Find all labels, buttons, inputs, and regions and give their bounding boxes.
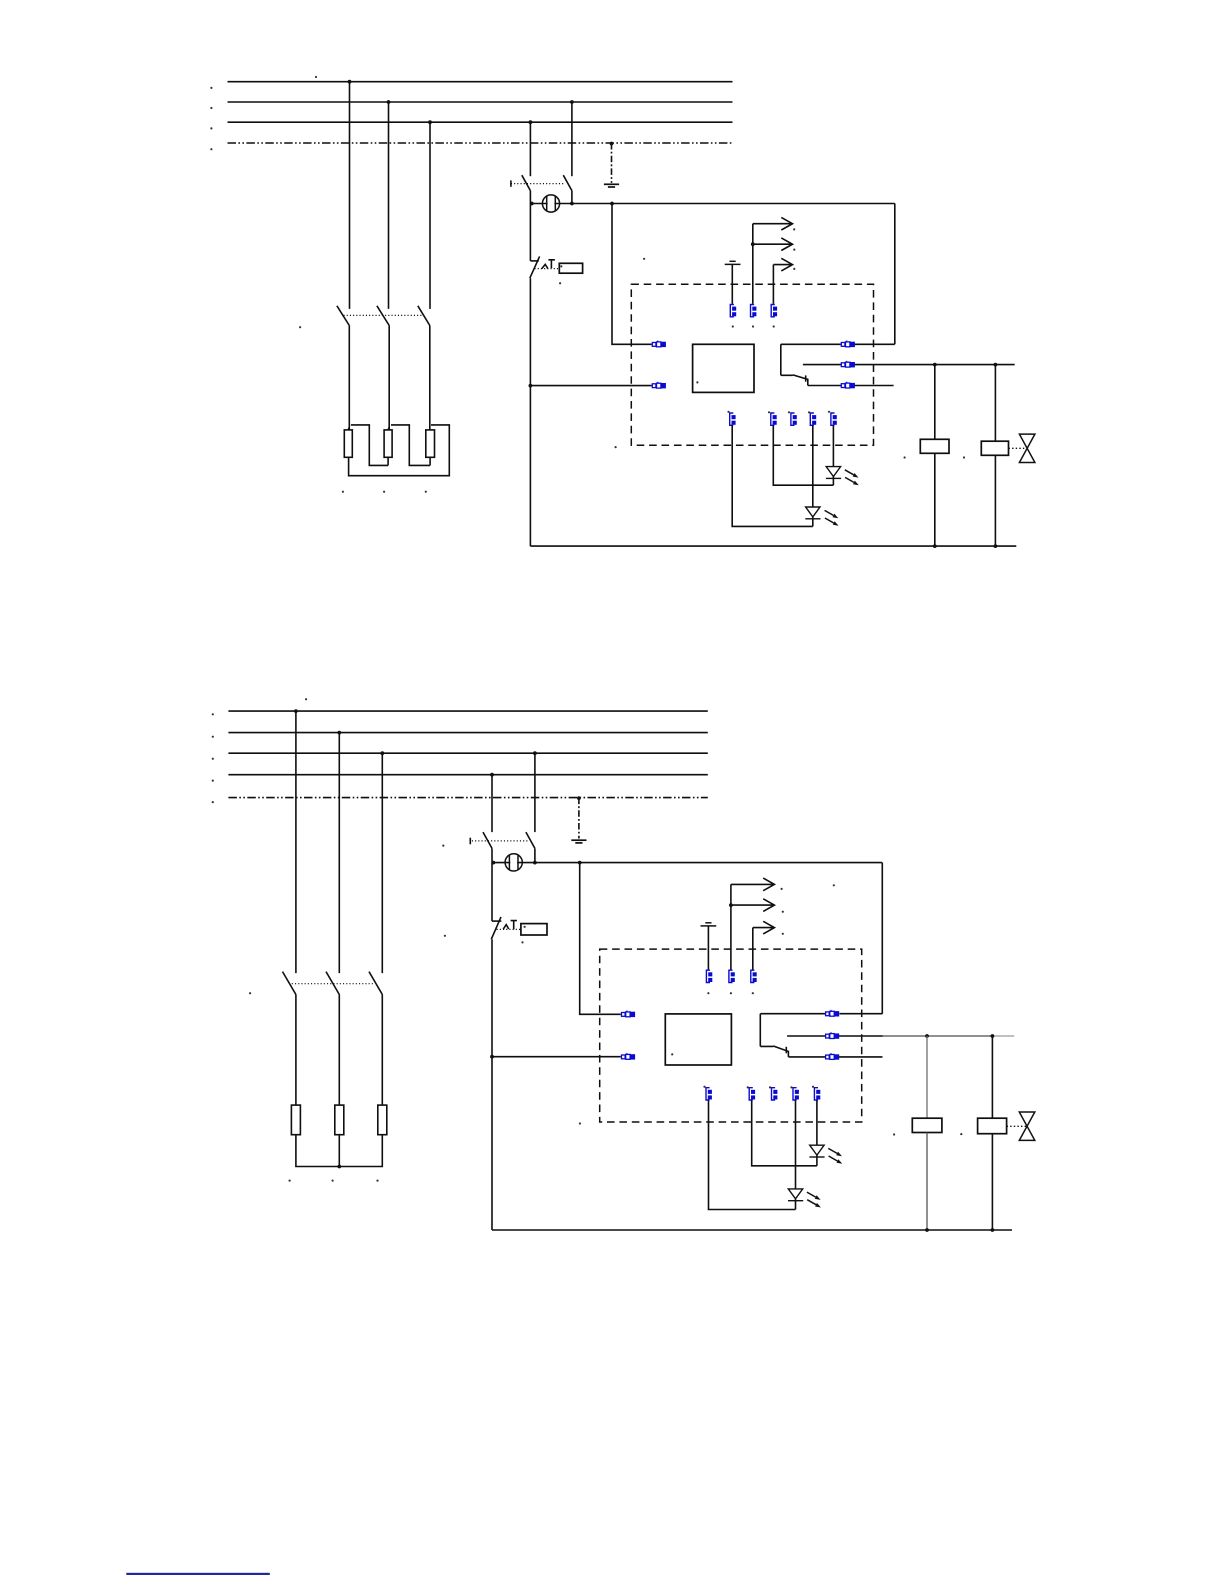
LED D1 emission arrows <box>845 470 859 485</box>
dot at B3b <box>769 1086 771 1088</box>
resistor R1b <box>291 1105 300 1135</box>
bus L4b <box>228 774 707 776</box>
ground PE <box>604 184 619 187</box>
wire right edge of loop b <box>881 863 883 1014</box>
contactor linkage (dotted) <box>344 314 422 316</box>
dot after arrow1 <box>793 228 795 230</box>
wire relay row3 b <box>788 1056 882 1058</box>
dot near dashed corner <box>615 446 617 448</box>
wire relay row2 ext b tail (light gray) <box>992 1035 1014 1037</box>
breaker QF2 linkage (dotted) <box>472 840 529 842</box>
junction coil1 rail b <box>925 1228 929 1232</box>
relay contact tick b <box>785 1047 787 1054</box>
dot below P3 <box>773 325 775 327</box>
valve Y1 <box>1019 434 1035 462</box>
controller dashed enclosure <box>631 284 873 445</box>
contactor KM2 pole3 blade <box>369 972 382 995</box>
node dot N label <box>210 148 212 150</box>
wire delta link R1top-R2bottom <box>351 425 388 466</box>
dot in sensor box <box>560 265 562 267</box>
connector B2 (bottom) <box>771 413 777 425</box>
valve Y1b <box>1019 1112 1035 1140</box>
junction L3b tap2 <box>533 751 537 755</box>
breaker linkage (dotted) <box>511 183 565 185</box>
signal arrow 2 <box>753 238 793 251</box>
junction L1 tap <box>348 80 352 84</box>
wire control top rail b <box>492 862 882 864</box>
wire tap phase2 to contactor <box>388 102 390 309</box>
wire relay row2 ext b (gray) <box>883 1035 993 1037</box>
junction Nb tap <box>577 796 581 800</box>
connector K3 (right row3) <box>841 382 855 389</box>
bus L1 <box>228 81 733 83</box>
contactor KM2 pole1 blade <box>283 972 296 995</box>
thermostat link triangle <box>542 264 548 268</box>
junction arrow2 branch <box>751 242 755 246</box>
node dot L2b label <box>212 736 214 738</box>
junction left rail corner <box>530 202 534 206</box>
connector B4b (bottom) <box>793 1088 799 1100</box>
wire left rail lower b <box>491 939 493 1230</box>
wire delta link R3top-R1bottom <box>349 425 450 476</box>
breaker QF2 pole1 blade <box>483 832 492 848</box>
wire relay row1 right b <box>840 1013 883 1015</box>
connector X2b (left row2) <box>622 1053 636 1060</box>
connector B5b (bottom) <box>814 1088 820 1100</box>
wire B4b to LED2b anode <box>795 1100 797 1189</box>
junction L2 tap2 <box>570 100 574 104</box>
signal arrow 1b <box>731 878 775 891</box>
wire contactor pole1 to R1 <box>348 326 349 430</box>
connector B3b (bottom) <box>772 1088 778 1100</box>
wire pole1b to R1b <box>295 995 297 1106</box>
wire to controller input2 b <box>492 1056 621 1058</box>
connector P2 (top) <box>751 305 757 317</box>
wire contactor pole2 to R2 <box>388 326 389 430</box>
wire signal ground stem <box>731 264 733 303</box>
wire pole2b to R2b <box>338 995 340 1106</box>
junction star point <box>337 1165 341 1169</box>
breaker linkage end cap <box>510 180 512 186</box>
thermostat NC contact blade b <box>491 917 501 939</box>
wire relay common drop b <box>759 1014 761 1047</box>
wire relay row2 <box>803 364 1015 366</box>
valve link (dotted) <box>1009 447 1027 449</box>
bus L1b <box>228 710 707 712</box>
LED D2b emission arrows <box>807 1192 821 1207</box>
LED D1b emission arrows <box>828 1148 842 1163</box>
dot left of coil2 b <box>960 1133 962 1135</box>
junction arrow2b branch <box>729 903 733 907</box>
wire to controller input2 <box>530 385 651 387</box>
connector K1b (right row1) <box>826 1010 840 1017</box>
junction left rail b <box>492 861 496 865</box>
thermostat T actuator <box>548 260 555 269</box>
wire bottom rail <box>530 545 1016 547</box>
wire tap phase1 to contactor <box>349 82 351 309</box>
dot after arrow1b <box>781 888 783 890</box>
plug-fuse symbol b <box>505 854 522 871</box>
wire B5 to LED1 anode <box>832 425 834 466</box>
dot after arrow2 <box>793 249 795 251</box>
dot at B1b <box>703 1086 705 1088</box>
node dot L3 label <box>210 127 212 129</box>
wire arrows feed b <box>730 884 732 969</box>
junction coil2 rail <box>994 544 998 548</box>
stray dot b2 <box>833 884 835 886</box>
node dot L1b label <box>212 713 214 715</box>
connector P1 (top) <box>730 305 736 317</box>
wire tap phase3 to contactor <box>429 122 431 309</box>
bus Nb (dash-dot) <box>228 797 707 799</box>
relay coil KA2b <box>978 1118 1007 1134</box>
resistor R1 <box>344 430 352 457</box>
signal arrow 1 <box>753 217 793 230</box>
junction L3 tap <box>428 120 432 124</box>
wire coil1 to rail b <box>926 1133 928 1231</box>
breaker QF2 pole2 blade <box>526 832 535 848</box>
junction L3 tap2 <box>529 120 533 124</box>
wire delta link R2top-R3bottom <box>391 425 430 466</box>
dot after arrow2b <box>782 911 784 913</box>
junction pole2b top wire <box>533 861 537 865</box>
footer rule <box>126 1573 269 1575</box>
connector B1 (bottom) <box>730 413 736 425</box>
connector B2b (bottom) <box>749 1088 755 1100</box>
wire LED2 cathode stub <box>812 517 814 527</box>
dot at B1 <box>727 411 729 413</box>
junction top rail to input1 <box>610 202 614 206</box>
junction left rail row2 b <box>490 1055 494 1059</box>
node dot L2 label <box>210 107 212 109</box>
junction N tap <box>610 142 614 146</box>
wire coil2 drop <box>994 365 996 442</box>
dot at B4 <box>808 411 810 413</box>
wire signal ground stem b <box>707 926 709 970</box>
junction L2 tap <box>387 100 391 104</box>
junction row2 coil2 b <box>991 1034 995 1038</box>
wire left rail upper b <box>491 863 493 922</box>
wire coil1 drop <box>934 365 936 440</box>
dot under R3b <box>376 1180 378 1182</box>
dot left of contact <box>643 258 645 260</box>
wire arrow3 feed <box>772 265 774 304</box>
wire tap breaker pole1b <box>491 775 493 832</box>
junction row2 coil1 b <box>925 1034 929 1038</box>
wire tap phase1b <box>295 711 297 973</box>
connector B4 (bottom) <box>810 413 816 425</box>
wire coil2 to rail b <box>991 1134 993 1230</box>
connector P2b (top) <box>729 970 735 982</box>
connector P1b (top) <box>706 970 712 982</box>
bus L2 <box>228 101 733 103</box>
resistor R2b <box>335 1105 344 1135</box>
wire breaker pole2 out <box>571 191 573 204</box>
contactor KM2 linkage (dotted) <box>292 983 375 985</box>
resistor R3b <box>378 1105 387 1135</box>
wire bottom rail b <box>492 1229 1012 1231</box>
dot left of contactor <box>299 326 301 328</box>
MCU module U1 <box>693 344 754 392</box>
dot below P3b <box>752 992 754 994</box>
dot under R3 <box>425 491 427 493</box>
node dot L1 label <box>210 87 212 89</box>
wire B2 to LED1 cathode <box>773 425 833 485</box>
junction coil1 rail <box>933 544 937 548</box>
wire tap to breaker pole1 <box>529 122 531 176</box>
dot under R1 <box>342 491 344 493</box>
junction row2 coil1 <box>933 363 937 367</box>
wire right edge of loop <box>894 204 896 345</box>
wire to controller input1 <box>612 204 652 345</box>
thermostat T actuator b <box>511 921 517 930</box>
connector K2b (right row2) <box>826 1032 840 1039</box>
stray dot right of box b <box>893 1133 895 1135</box>
junction top rail input1 b <box>578 861 582 865</box>
wire tap phase3b <box>381 753 383 973</box>
LED D2b <box>788 1189 803 1201</box>
relay contact blade b <box>760 1046 788 1057</box>
wire B5b to LED1b anode <box>816 1100 818 1145</box>
dot at B2 <box>768 411 770 413</box>
thermostat NC contact blade <box>530 256 540 278</box>
resistor R3 <box>426 430 435 457</box>
wire relay row1 right <box>854 343 895 345</box>
relay coil KA2 <box>981 441 1008 455</box>
contactor KM1 pole2 blade <box>377 306 389 326</box>
LED D1b <box>809 1145 824 1157</box>
thermostat link triangle b <box>503 925 509 930</box>
contactor KM2 pole2 blade <box>326 972 339 995</box>
dot at B5 <box>828 411 830 413</box>
stray dot <box>315 76 317 78</box>
relay coil KA1 <box>920 439 949 453</box>
wire B2b to LED1b cathode <box>752 1100 817 1165</box>
relay contact tick <box>805 375 807 381</box>
wire arrow3 feed b <box>752 928 754 970</box>
thermostat sensor box b <box>521 924 547 935</box>
wire LED2b cathode stub <box>795 1199 797 1210</box>
signal ground symbol b <box>701 923 717 926</box>
relay coil KA1b <box>912 1118 942 1132</box>
contactor KM1 pole1 blade <box>337 306 349 326</box>
thermostat NC contact foot b <box>492 920 501 922</box>
wire left rail upper <box>529 204 531 261</box>
LED D1 <box>826 467 841 479</box>
dot at B3 <box>788 411 790 413</box>
contactor KM1 pole3 blade <box>418 306 430 326</box>
wire relay row1 left <box>781 343 841 345</box>
dot under R2b <box>332 1180 334 1182</box>
wire LED1b cathode stub <box>816 1155 818 1166</box>
resistor R2 <box>384 430 392 457</box>
LED D2 emission arrows <box>825 510 839 525</box>
dot in MCU b <box>671 1053 673 1055</box>
connector B3 (bottom) <box>791 413 797 425</box>
connector P3b (top) <box>751 970 757 982</box>
MCU module U2 <box>665 1014 731 1065</box>
dot at B4b <box>790 1086 792 1088</box>
bus N (dash-dot) <box>228 142 733 144</box>
bus L3 <box>228 121 733 123</box>
wire tap phase2b <box>338 733 340 974</box>
dot near dashed corner b <box>579 1122 581 1124</box>
stray dot b1 <box>305 698 307 700</box>
wire tap to breaker pole2 <box>571 102 573 176</box>
junction pole2 to top wire <box>570 202 574 206</box>
dot under R2 <box>383 491 385 493</box>
wire tap breaker pole2b <box>534 753 536 832</box>
connector K1 (right row1) <box>841 341 855 348</box>
wire coil1 to rail <box>934 453 936 546</box>
thermostat NC contact foot <box>530 260 538 262</box>
dot left of coil2 <box>963 456 965 458</box>
dot below actuator b <box>521 941 523 943</box>
bus L2b <box>228 732 707 734</box>
wire PE drop (dash-dot) <box>611 143 613 183</box>
breaker QF2 linkage cap <box>469 838 471 845</box>
bus L3b <box>228 752 707 754</box>
dot below P2b <box>730 992 732 994</box>
node dot L3b label <box>212 758 214 760</box>
node dot Nb label <box>212 801 214 803</box>
dot in sensor box b <box>524 926 526 928</box>
connector K2 (right row2) <box>841 361 855 368</box>
controller dashed enclosure b <box>600 949 862 1122</box>
wire PEb drop (dash-dot) <box>578 798 580 839</box>
signal arrow 3b <box>753 921 775 934</box>
junction coil2 rail b <box>991 1228 995 1232</box>
connector K3b (right row3) <box>826 1053 840 1060</box>
wire coil2 to rail <box>994 455 996 546</box>
junction L1b tap <box>294 709 298 713</box>
breaker QF1 pole2 blade <box>563 175 572 190</box>
wire relay row2 b <box>787 1035 883 1037</box>
junction row2 coil2 <box>994 363 998 367</box>
junction L3b tap <box>380 751 384 755</box>
junction L4b tap <box>490 773 494 777</box>
connector P3 (top) <box>771 305 777 317</box>
junction left rail row2 <box>529 384 533 388</box>
wire B4 to LED2 anode <box>812 425 814 507</box>
wire B1 to LED2 cathode <box>732 425 813 526</box>
dot in MCU <box>696 381 698 383</box>
wire left rail lower <box>529 278 531 546</box>
wire coil2 drop b <box>991 1036 993 1118</box>
wire pole3b to R3b <box>381 995 383 1106</box>
dot left of contactor b <box>249 992 251 994</box>
wire coil1 drop b (gray) <box>926 1036 928 1118</box>
ground PEb <box>571 840 586 843</box>
dot left of contact b <box>444 935 446 937</box>
node dot L4b label <box>212 780 214 782</box>
wire star point <box>296 1135 382 1167</box>
relay contact blade <box>781 375 808 386</box>
junction L2b tap <box>337 731 341 735</box>
wire relay row1 left b <box>760 1013 825 1015</box>
valve link b (dotted) <box>1007 1125 1026 1127</box>
dot after arrow3b <box>782 933 784 935</box>
dot under R1b <box>289 1180 291 1182</box>
wire LED1 cathode stub <box>832 477 834 486</box>
thermostat link b (dotted) <box>497 928 521 930</box>
thermostat link (dotted) <box>535 268 559 270</box>
wire breaker pole1b out <box>491 848 493 862</box>
dot at B2b <box>747 1086 749 1088</box>
wire control top rail <box>530 203 894 205</box>
wire B1b to LED2b cathode <box>709 1100 796 1209</box>
thermostat sensor box <box>559 263 582 273</box>
dot after arrow3 <box>793 268 795 270</box>
signal arrow 2b <box>731 899 775 912</box>
signal arrow 3 <box>773 258 792 271</box>
dot at B5b <box>812 1086 814 1088</box>
connector X2 (left row2) <box>652 382 666 389</box>
dot below P1b <box>707 992 709 994</box>
connector X1 (left row1) <box>652 341 666 348</box>
signal ground symbol <box>725 261 741 264</box>
breaker QF1 pole1 blade <box>522 175 531 190</box>
wire to controller input1 b <box>580 863 621 1015</box>
plug-fuse symbol <box>542 195 559 212</box>
dot below P1 <box>732 325 734 327</box>
wire breaker pole1 out <box>529 191 531 204</box>
wire arrows feed <box>752 224 754 304</box>
dot left of coil1 <box>904 456 906 458</box>
dot left of breaker b <box>442 845 444 847</box>
connector B5 (bottom) <box>831 413 837 425</box>
wire breaker pole2b out <box>534 848 536 862</box>
wire relay row3 <box>808 385 894 387</box>
connector X1b (left row1) <box>622 1011 636 1018</box>
connector B1b (bottom) <box>706 1088 712 1100</box>
wire relay common drop <box>780 344 782 375</box>
LED D2 <box>805 507 820 519</box>
wire contactor pole3 to R3 <box>429 326 431 430</box>
dot below P2 <box>752 325 754 327</box>
dot below actuator <box>559 282 561 284</box>
